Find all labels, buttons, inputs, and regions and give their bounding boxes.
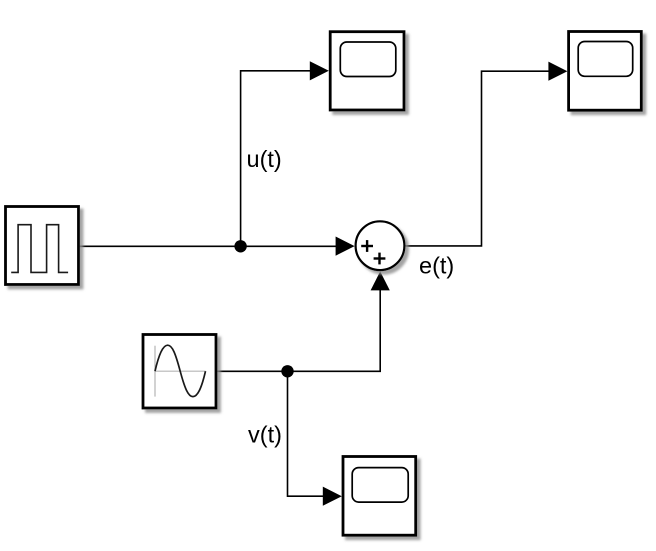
node A junction dot xyxy=(234,240,246,252)
sine icon curve xyxy=(155,345,206,396)
wire sine output to junction B xyxy=(217,370,288,372)
pulse generator block xyxy=(6,207,79,285)
scope3 screen xyxy=(352,468,408,503)
pulse generator icon xyxy=(11,225,68,273)
wire sum output to scope2 xyxy=(406,71,549,246)
svg-text:u(t): u(t) xyxy=(247,146,282,172)
scope2 block (top right) xyxy=(569,32,642,111)
wire junction B down to scope3 xyxy=(288,371,325,496)
wire junction A to sum input xyxy=(241,245,337,247)
node B junction dot xyxy=(281,365,293,377)
svg-text:v(t): v(t) xyxy=(248,421,282,447)
arrowhead into scope2 xyxy=(548,62,567,81)
scope1 screen xyxy=(340,42,396,77)
arrowhead into scope3 xyxy=(323,487,342,506)
sum plus sign 1 xyxy=(361,240,373,252)
sine icon axes xyxy=(154,346,156,397)
wire pulse output to junction A xyxy=(79,245,241,247)
sum block (adder) circle xyxy=(356,221,405,270)
arrowhead into sum bottom xyxy=(371,271,390,290)
sum plus sign 2 xyxy=(374,253,386,265)
sine wave block xyxy=(143,335,216,409)
scope3 block (bottom) xyxy=(343,457,416,536)
wire junction B to sum bottom xyxy=(288,290,381,372)
svg-text:e(t): e(t) xyxy=(419,252,454,278)
arrowhead into sum left xyxy=(336,237,355,256)
scope1 block (top middle) xyxy=(330,32,404,110)
arrowhead into scope1 xyxy=(310,61,329,80)
wire junction A up to scope1 xyxy=(241,71,311,247)
scope2 screen xyxy=(578,42,633,77)
